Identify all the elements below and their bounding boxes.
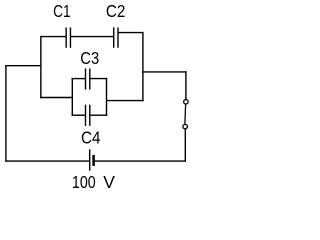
capacitor C4 (86, 105, 90, 126)
capacitor C2 (114, 27, 118, 47)
wire left inner vertical (40, 36, 42, 98)
svg-text:V: V (103, 172, 115, 192)
svg-text:100: 100 (72, 172, 96, 192)
wire inner box right vertical (106, 78, 108, 116)
wire top-left segment (41, 36, 66, 38)
wire bottom-right segment (94, 160, 186, 162)
svg-text:C2: C2 (106, 1, 126, 21)
wire between C1 and C2 (70, 36, 113, 38)
wire bottom-left segment (5, 160, 90, 162)
capacitor C1 (66, 27, 70, 47)
wire right inner vertical (142, 32, 144, 101)
svg-text:C1: C1 (53, 1, 71, 21)
svg-text:C3: C3 (80, 48, 99, 68)
wire lower-middle horizontal (40, 97, 72, 99)
wire inner box bottom edge (72, 114, 108, 116)
svg-text:C4: C4 (81, 127, 101, 147)
wire right outer vertical upper (185, 71, 187, 99)
wire top branch to switch (142, 71, 186, 73)
wire top-right segment (118, 32, 143, 34)
wire inner box top edge (72, 78, 108, 80)
capacitor C3 (86, 68, 90, 89)
wire inner box left vertical (71, 78, 73, 116)
wire left outer vertical (5, 65, 7, 162)
wire middle-right horizontal (107, 100, 144, 102)
switch S1 (183, 100, 188, 129)
wire middle-left horizontal (5, 65, 41, 67)
wire right outer vertical lower (184, 129, 186, 162)
battery 100 V (90, 149, 94, 170)
